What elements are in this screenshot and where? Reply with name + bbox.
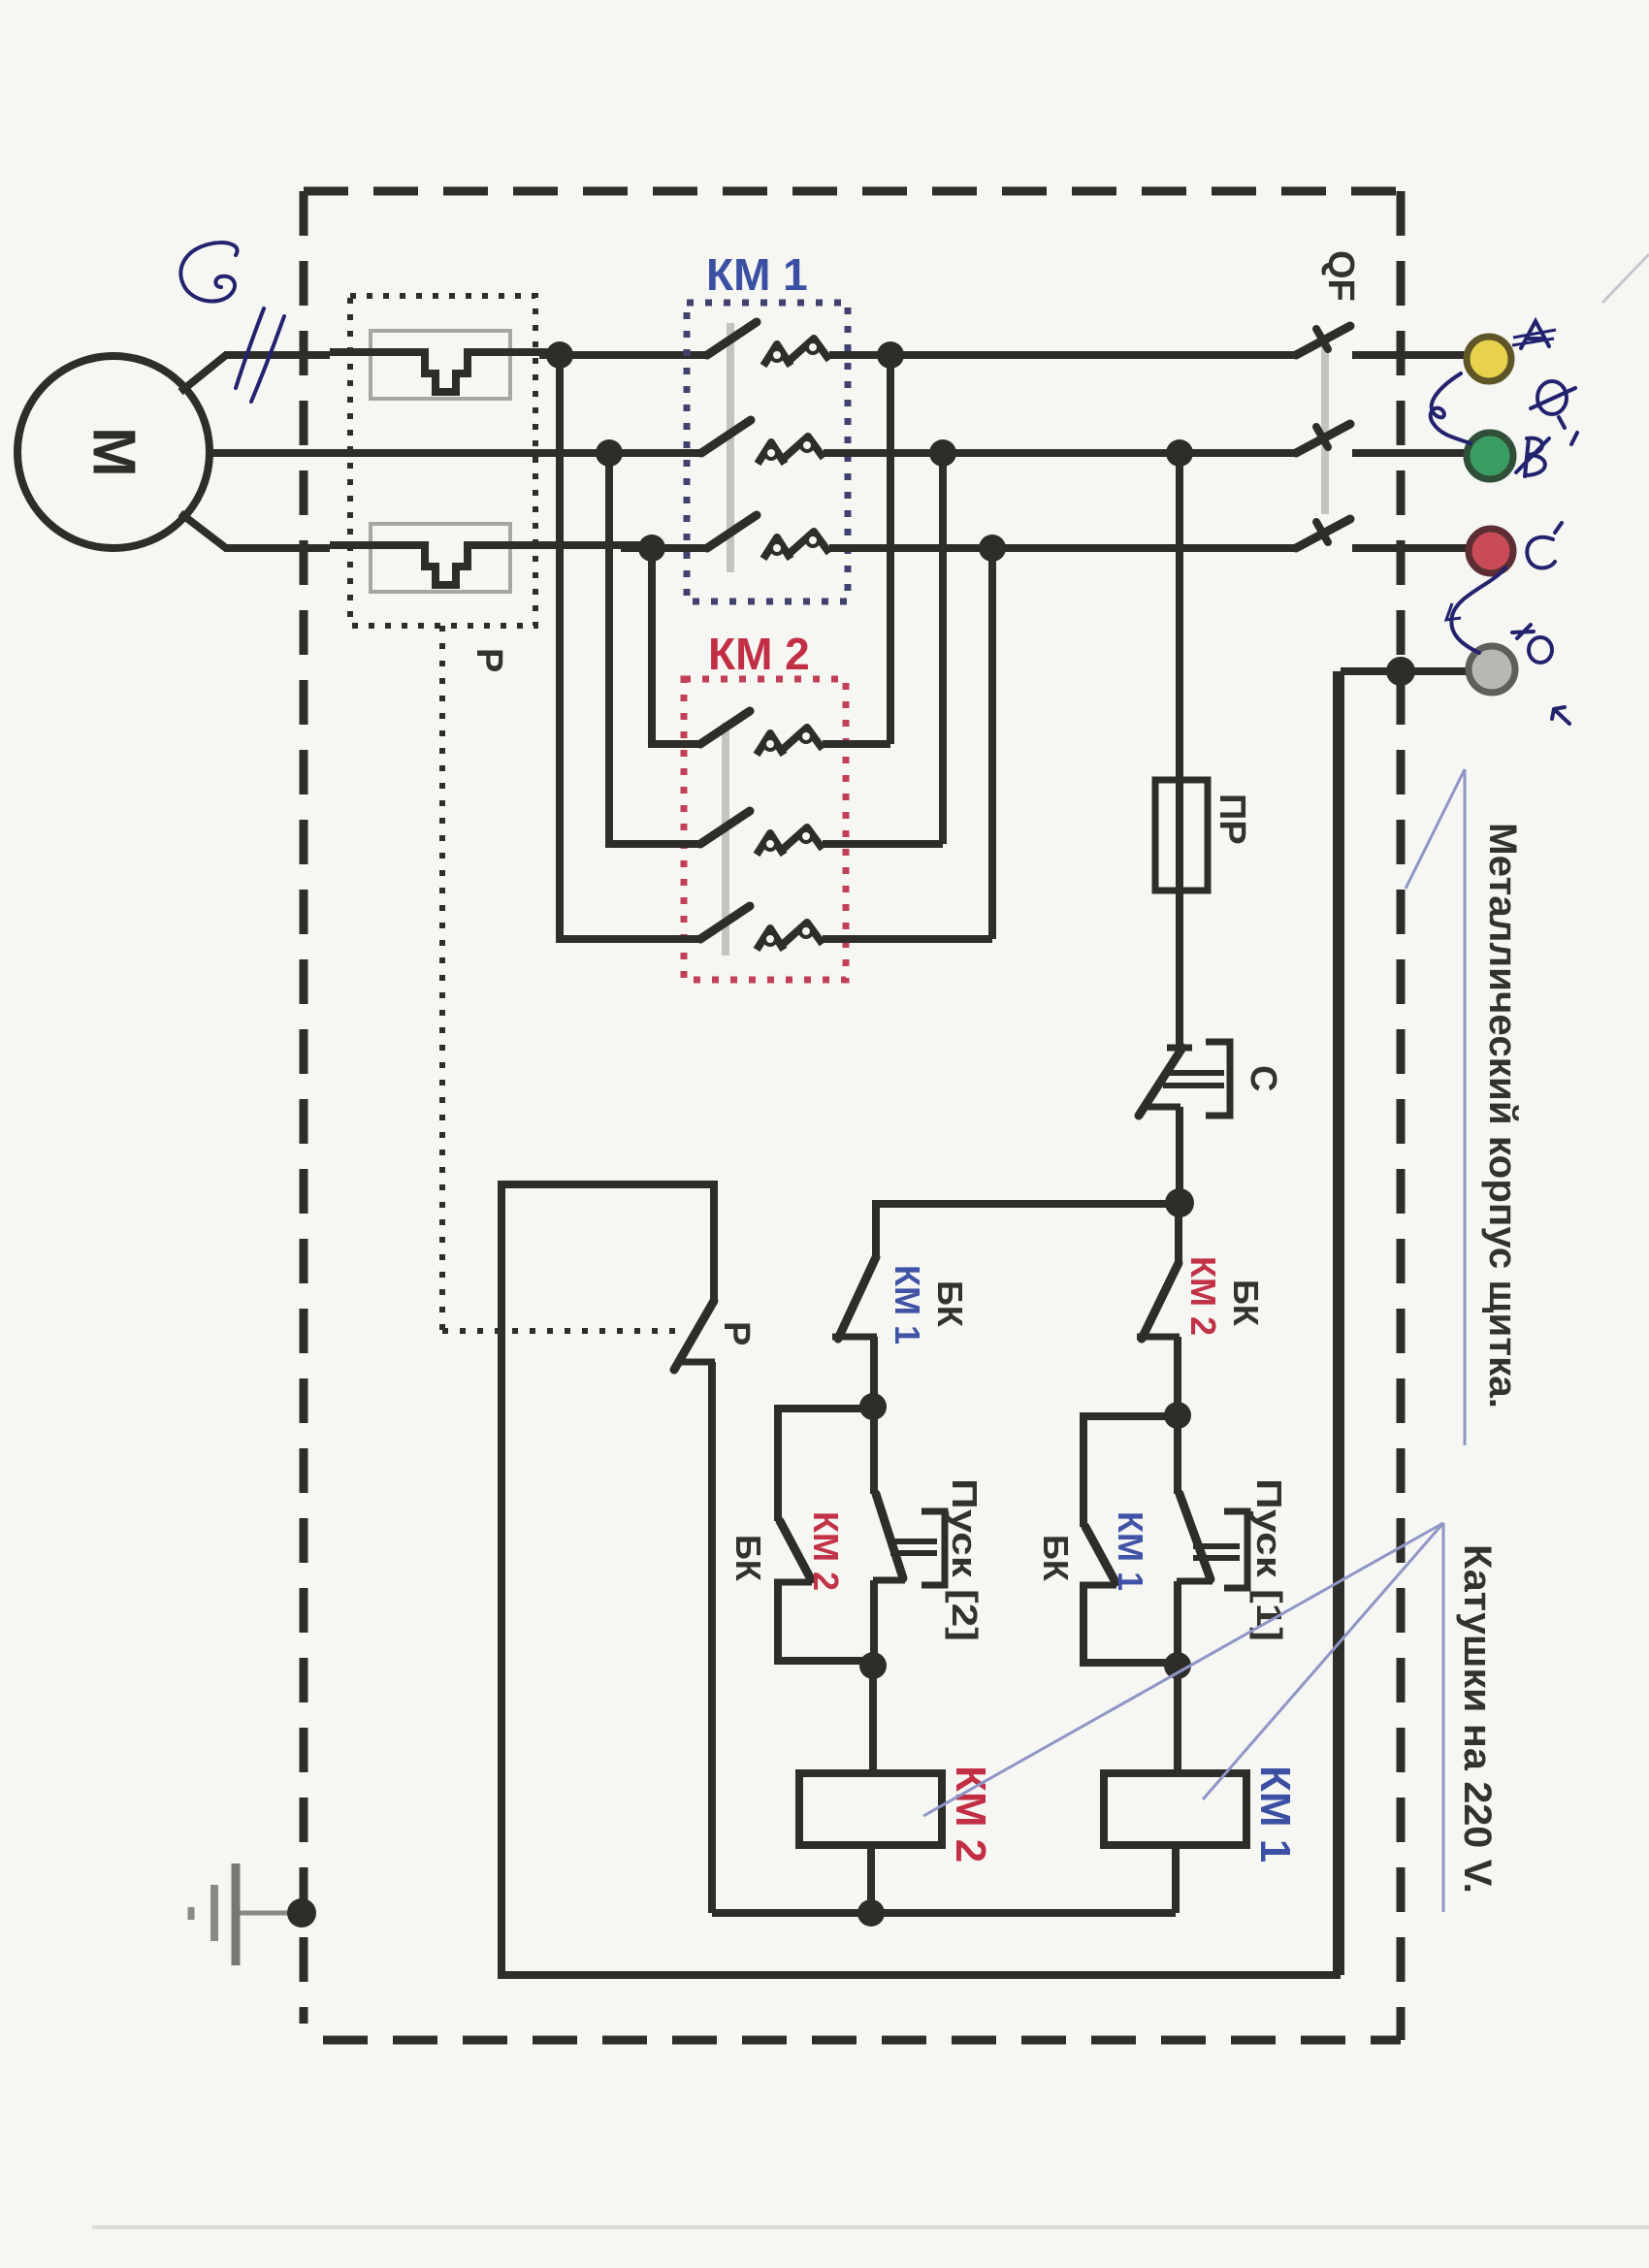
wire KM2 row2 left from phase B	[609, 453, 700, 844]
svg-text:КМ 2: КМ 2	[806, 1511, 846, 1591]
svg-text:БК: БК	[728, 1535, 768, 1582]
label BK (NC interlock left)	[930, 1280, 970, 1328]
pen letter A near yellow terminal	[1512, 321, 1556, 348]
node C motor-side	[638, 535, 665, 562]
pointer line to border (metal cabinet)	[1406, 769, 1465, 889]
caption metal cabinet	[1481, 823, 1524, 1409]
auxiliary contact BK KM1 (NO self-hold)	[1080, 1527, 1178, 1663]
terminal A (yellow)	[1467, 337, 1511, 381]
start button Pusk 2	[873, 1407, 945, 1666]
wire KM2 coil top	[869, 1666, 877, 1773]
node coil bottom join	[857, 1899, 885, 1927]
wire control feed from phase B	[1176, 453, 1183, 780]
wire split to BK KM1	[876, 1204, 1180, 1257]
coil KM2	[799, 1773, 942, 1845]
label KM2	[708, 629, 810, 679]
label BK (NO right)	[1036, 1535, 1076, 1582]
KM1 main contact pole 3	[707, 515, 992, 559]
svg-text:БК: БК	[1036, 1535, 1076, 1582]
node B fuse tap	[1166, 439, 1193, 467]
caption underline (coils)	[1442, 1523, 1445, 1912]
KM2 linkage bar	[722, 723, 729, 956]
node B supply-side	[929, 439, 956, 467]
auxiliary contact BK KM2 (NO self-hold)	[774, 1521, 873, 1661]
pen tick after F	[1571, 433, 1577, 444]
terminal B (green)	[1467, 433, 1513, 479]
KM2 reversing contact pole 3	[700, 906, 992, 950]
breaker QF linkage bar	[1321, 341, 1329, 514]
wire bypass BK KM1 upper	[1083, 1416, 1178, 1527]
stop button C	[1139, 1042, 1230, 1203]
svg-text:КМ 1: КМ 1	[1111, 1511, 1150, 1591]
pen scribble near motor	[180, 243, 237, 301]
wire KM2 row1 right to phase A	[887, 355, 894, 744]
label PR (fuse)	[1212, 794, 1252, 845]
wire outer loop	[501, 671, 1337, 1975]
scan streak bottom	[92, 2225, 1649, 2229]
node A supply-side	[877, 341, 904, 369]
terminal 0 (gray)	[1469, 646, 1515, 693]
breaker QF pole 1	[1296, 326, 1467, 355]
label KM 1 (NC interlock)	[888, 1265, 927, 1345]
node left branch bottom	[859, 1652, 887, 1679]
label KM1	[706, 249, 808, 300]
thermal heater element 2 (phase C)	[330, 524, 652, 592]
node 0 on enclosure border	[1386, 657, 1415, 686]
svg-text:КМ 2: КМ 2	[708, 629, 810, 679]
label C (stop button)	[1243, 1065, 1283, 1091]
svg-text:ПР: ПР	[1212, 794, 1252, 845]
svg-text:КМ 1: КМ 1	[1251, 1766, 1299, 1863]
breaker QF pole 3	[1296, 519, 1467, 548]
pen hash near gray terminal	[1512, 625, 1534, 638]
pen letter C near red terminal	[1527, 523, 1562, 568]
coil KM1	[1104, 1773, 1246, 1845]
label KM 2 (coil)	[947, 1766, 994, 1863]
pointer line to coil KM1	[1203, 1523, 1443, 1799]
KM1 linkage bar	[727, 323, 734, 572]
wire KM2 row2 right to phase B	[939, 453, 947, 844]
wire phase A motor-side	[468, 352, 709, 355]
pointer line to coil KM2	[923, 1523, 1443, 1816]
wire bypass BK KM2 upper	[778, 1409, 873, 1521]
pen arrow below gray terminal	[1552, 707, 1569, 724]
label P (thermal contact)	[716, 1321, 757, 1345]
wire split down right branch	[1175, 1204, 1182, 1263]
node right branch top	[1164, 1402, 1191, 1429]
wire phase B motor-side	[210, 449, 702, 457]
thermal heater element 1 (phase A)	[330, 331, 560, 399]
node ground on border	[287, 1898, 316, 1928]
breaker QF pole 2	[1296, 424, 1467, 453]
wire motor lead phase B	[210, 449, 330, 457]
node right branch bottom	[1164, 1652, 1191, 1679]
svg-text:БК: БК	[930, 1280, 970, 1328]
label KM 2 (NC interlock)	[1183, 1256, 1223, 1336]
pen curve yellow to green	[1431, 373, 1471, 443]
label Pusk (1)	[1249, 1478, 1289, 1641]
label P (thermal relay)	[469, 648, 509, 672]
interlock contact BK KM1 (NC)	[832, 1257, 877, 1407]
wire KM2 row3 right to phase C	[988, 548, 996, 939]
node left branch top	[859, 1393, 887, 1420]
svg-text:М: М	[81, 427, 147, 477]
wire KM2 row3 left from phase A	[560, 355, 700, 939]
interlock contact BK KM2 (NC)	[1137, 1263, 1180, 1415]
label QF	[1320, 250, 1361, 302]
svg-text:КМ 2: КМ 2	[1183, 1256, 1223, 1336]
wire fuse to stop button	[1176, 891, 1183, 1048]
pen curve red to gray	[1446, 567, 1505, 653]
svg-text:Р: Р	[469, 648, 509, 672]
pen tick after B	[1559, 417, 1565, 428]
contactor KM1 dotted box	[687, 303, 848, 601]
pen letter B near green terminal	[1516, 438, 1549, 476]
label KM 2 (NO left)	[806, 1511, 846, 1591]
svg-text:Металлический корпус щитка.: Металлический корпус щитка.	[1481, 823, 1524, 1409]
fuse PR	[1155, 780, 1208, 891]
caption underline (metal cabinet)	[1464, 769, 1467, 1445]
terminal C (red)	[1469, 529, 1513, 573]
KM2 reversing contact pole 1	[700, 711, 890, 755]
wire phase C supply-side	[992, 544, 1294, 552]
thermal relay contact P (NC)	[674, 1301, 715, 1913]
node control split	[1165, 1188, 1194, 1217]
contactor KM2 dotted box	[684, 679, 846, 980]
node B motor-side	[596, 439, 623, 467]
wire KM1 coil top	[1174, 1666, 1181, 1773]
node A motor-side	[546, 341, 573, 369]
svg-text:Пуск [1]: Пуск [1]	[1249, 1478, 1289, 1641]
svg-text:Пуск [2]: Пуск [2]	[945, 1478, 985, 1641]
svg-text:QF: QF	[1320, 250, 1361, 302]
svg-text:С: С	[1243, 1065, 1283, 1091]
svg-text:Р: Р	[716, 1321, 757, 1345]
label Pusk (2)	[945, 1478, 985, 1641]
wire phase B supply-side	[943, 449, 1294, 457]
svg-text:БК: БК	[1226, 1280, 1266, 1327]
node C supply-side	[979, 535, 1006, 562]
pen digit 0 near gray terminal	[1529, 637, 1552, 663]
svg-text:КМ 1: КМ 1	[706, 249, 808, 300]
label KM 1 (coil)	[1251, 1766, 1299, 1863]
label BK (NO left)	[728, 1535, 768, 1582]
wire motor lead phase A	[180, 355, 330, 392]
wire coil bottoms	[712, 1845, 1176, 1913]
svg-text:КМ 1: КМ 1	[888, 1265, 927, 1345]
motor M	[17, 356, 210, 548]
KM2 reversing contact pole 2	[700, 811, 943, 855]
pen slashes on motor lead	[236, 308, 284, 402]
label BK (NC interlock right)	[1226, 1280, 1266, 1327]
label KM 1 (NO right)	[1111, 1511, 1150, 1591]
wire KM2 row1 left from phase C	[652, 548, 700, 744]
thermal relay P dotted box	[350, 296, 535, 626]
ground symbol	[191, 1863, 302, 1965]
enclosure dashed border (metal cabinet)	[304, 191, 1401, 2040]
dotted mechanical link of thermal relay P	[442, 626, 679, 1331]
wire return top	[504, 1184, 714, 1301]
wire neutral 0 terminal	[1341, 671, 1469, 1975]
caption coils 220V	[1456, 1544, 1499, 1894]
scan crease top-right	[1602, 254, 1649, 303]
KM1 main contact pole 2	[701, 420, 943, 464]
pen letter F (phase) near yellow terminal	[1531, 381, 1575, 414]
wire motor lead phase C	[180, 513, 330, 548]
wire phase A supply-side	[890, 351, 1296, 359]
KM1 main contact pole 1	[707, 322, 890, 366]
start button Pusk 1	[1177, 1415, 1247, 1666]
svg-text:Катушки на 220 V.: Катушки на 220 V.	[1456, 1544, 1499, 1894]
wire phase C motor-side	[468, 545, 709, 548]
